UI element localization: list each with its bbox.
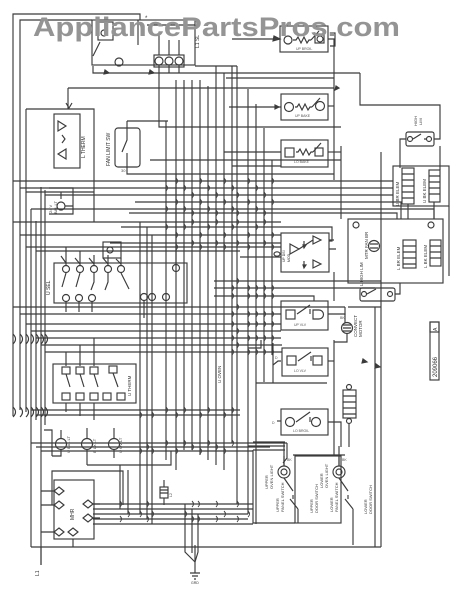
door switch area [248, 442, 353, 545]
wire from clock bottom right [195, 65, 237, 67]
svg-text:UP VLV: UP VLV [294, 323, 307, 327]
svg-text:L HIGH LIM: L HIGH LIM [359, 262, 364, 286]
wire left vertical x36 [35, 221, 37, 420]
svg-text:U SEL: U SEL [46, 280, 52, 295]
wire x341 [340, 146, 342, 219]
DSI right [329, 240, 336, 249]
R6 right [328, 422, 341, 447]
MHR outer box [52, 471, 123, 505]
L THERM box [54, 114, 80, 168]
lamp row bottom-left [52, 430, 67, 456]
S1 bottom stubs [66, 301, 144, 318]
svg-text:U OVEN: U OVEN [217, 366, 222, 383]
svg-text:OVEN LIGHT: OVEN LIGHT [324, 463, 329, 488]
svg-text:MOD: MOD [287, 253, 291, 262]
relay R1 [280, 26, 328, 52]
S1 top stubs [66, 174, 176, 265]
frame bottom [31, 546, 381, 548]
R4 feed [333, 272, 335, 301]
convect motor [342, 323, 353, 334]
jog cluster left y412 [13, 407, 48, 417]
wire top pair y78 [226, 77, 334, 79]
svg-text:FAN LIMIT SW: FAN LIMIT SW [106, 132, 112, 166]
wire left vertical x45 [44, 190, 46, 425]
svg-text:UP DSI: UP DSI [282, 250, 286, 262]
frame inner left/top [20, 20, 92, 410]
L1 lead [40, 547, 42, 565]
svg-text:BK: BK [340, 316, 345, 320]
R2 feed arrow [275, 105, 279, 109]
R2 feed [229, 106, 281, 108]
svg-text:LIM: LIM [418, 118, 423, 125]
resistor small [160, 480, 168, 505]
clock box B1 [92, 20, 195, 67]
svg-text:U THERM: U THERM [127, 375, 132, 396]
lower elements [403, 240, 416, 268]
small box P [103, 242, 121, 258]
L THERM outer box [26, 109, 94, 222]
svg-text:BK: BK [287, 458, 292, 462]
fan motor circle [369, 241, 380, 252]
svg-text:PANEL SWITCH: PANEL SWITCH [334, 482, 339, 512]
HIGH LIM switch [406, 132, 434, 146]
svg-text:L BR ELEM: L BR ELEM [396, 246, 401, 270]
junction arrows right [362, 359, 380, 368]
motor wires [334, 334, 347, 342]
wire crossing jogs [120, 178, 274, 522]
wire from fan limit [127, 167, 334, 174]
svg-text:OVEN LIGHT: OVEN LIGHT [269, 464, 274, 489]
element drops [408, 146, 440, 219]
R3 right [328, 151, 341, 153]
right vertical elements [448, 206, 450, 276]
svg-text:L THERM: L THERM [81, 136, 87, 158]
frame right vertical [380, 152, 382, 547]
R4 right [328, 314, 345, 323]
MHR connector box [54, 480, 94, 539]
svg-text:LO VLV: LO VLV [294, 369, 307, 373]
selector S2 box [53, 364, 136, 403]
R2 right [328, 105, 334, 107]
R5 corner wire [248, 340, 261, 348]
svg-text:L BK ELEM: L BK ELEM [423, 245, 428, 268]
svg-text:MHR: MHR [70, 508, 76, 520]
FAN LIMIT SW box [115, 121, 140, 167]
DSI input connector [274, 252, 280, 256]
svg-text:BAL LT: BAL LT [53, 201, 58, 214]
wire R1 right [328, 39, 334, 180]
jog cluster left y340 [13, 334, 48, 344]
relay R2 [281, 94, 328, 120]
wire bottom-left [87, 451, 171, 465]
svg-text:209066: 209066 [433, 356, 439, 377]
wire right top [360, 73, 440, 139]
relay R4 [281, 301, 328, 330]
wire R1 feed [232, 38, 280, 40]
DSI feeds [240, 256, 281, 258]
svg-text:L1: L1 [35, 570, 41, 576]
svg-text:MTR FAN BR: MTR FAN BR [364, 231, 369, 259]
lamp L BAL LT [49, 188, 73, 214]
wire left vertical x26 [25, 192, 27, 412]
wire y382 [256, 343, 327, 383]
junction mark node [335, 86, 339, 90]
frame outer left/top [13, 14, 140, 416]
svg-text:LO BROIL: LO BROIL [293, 429, 309, 433]
svg-text:L2: L2 [169, 493, 173, 497]
selector S1 box [54, 263, 187, 303]
wire left vertical x31 [30, 209, 32, 547]
part number box [430, 322, 439, 380]
DSI module box [281, 233, 329, 272]
wire left vertical x41 [40, 187, 42, 565]
svg-text:DOOR SWITCH: DOOR SWITCH [368, 485, 373, 514]
horizontal band mid [68, 87, 334, 89]
R6 feed [277, 420, 281, 422]
svg-text:PANEL SWITCH: PANEL SWITCH [280, 482, 285, 512]
svg-text:AppliancePartsPros.com: AppliancePartsPros.com [33, 12, 400, 42]
R5 right [328, 360, 334, 362]
S2 stubs [66, 338, 94, 420]
S1 feed arrows [61, 256, 121, 264]
wire clock to L THERM [67, 88, 69, 109]
ground [185, 504, 200, 579]
R5 feed [273, 361, 281, 365]
relay R6 [281, 409, 328, 435]
striped box component [343, 385, 356, 448]
MHR stubs [41, 491, 100, 547]
blade to panel sw [283, 443, 287, 463]
svg-text:LO BAKE: LO BAKE [294, 160, 310, 164]
wire high lim left [400, 139, 406, 168]
wire top pair y73 [93, 66, 360, 73]
svg-text:U BAL LT: U BAL LT [66, 436, 71, 453]
svg-text:GRD: GRD [191, 581, 199, 585]
upper elements [402, 168, 414, 204]
junction arrows on wire y73 [104, 70, 154, 74]
upper element enclosure [393, 166, 449, 206]
svg-text:UP BAKE: UP BAKE [295, 114, 311, 118]
svg-text:UP BROIL: UP BROIL [296, 47, 312, 51]
svg-text:MOTOR: MOTOR [358, 320, 363, 337]
relay R5 [282, 348, 328, 376]
svg-text:BK: BK [342, 458, 347, 462]
R3 feed [224, 151, 281, 153]
L HIGH LIM [360, 288, 395, 301]
svg-text:U BK ELEM: U BK ELEM [422, 179, 427, 203]
central vertical bundle [165, 121, 167, 460]
svg-text:30: 30 [121, 168, 126, 173]
lower element enclosure [348, 219, 443, 283]
relay R3 [281, 140, 328, 167]
wire right inner vertical [374, 307, 376, 547]
